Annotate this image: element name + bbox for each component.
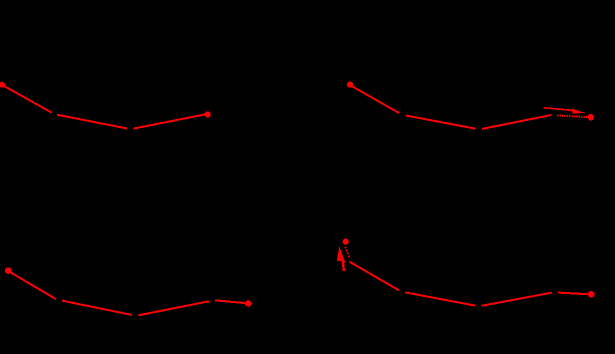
series top-right: end marker (588, 114, 595, 121)
series bottom-left segment 1 (10, 272, 56, 299)
series top-right segment 2 (406, 116, 476, 129)
series bottom-left segment 4 (215, 300, 245, 303)
series top-left segment 1 (3, 86, 51, 113)
series top-left: end marker (205, 111, 211, 117)
series bottom-left: end marker (245, 300, 252, 307)
dotted leader line below highlighted point (bottom-right) (345, 247, 349, 258)
series top-left segment 2 (57, 115, 127, 129)
annotation arrow head (top-right) (572, 109, 585, 114)
series bottom-left: start marker (5, 267, 12, 274)
series bottom-right segment 1 (349, 262, 399, 291)
series bottom-right: highlighted point marker (343, 239, 349, 245)
series top-right segment 1 (352, 86, 400, 113)
series bottom-left segment 2 (62, 301, 132, 315)
series top-left segment 3 (134, 115, 205, 129)
series top-right segment 3 (482, 115, 551, 129)
annotation arrow shaft (top-right) (544, 108, 575, 111)
series bottom-right segment 2 (405, 292, 475, 305)
series bottom-left segment 3 (139, 301, 210, 315)
series top-right: start marker (347, 82, 353, 88)
series top-right dotted forecast segment (557, 115, 589, 117)
series bottom-right: end marker (588, 291, 595, 298)
series bottom-right segment 3 (482, 293, 552, 306)
annotation up-arrow head (bottom-right) (337, 246, 345, 262)
series top-left: start marker (0, 82, 5, 88)
annotation up-arrow shaft (bottom-right) (342, 261, 345, 271)
series bottom-right segment 4 (558, 293, 587, 295)
